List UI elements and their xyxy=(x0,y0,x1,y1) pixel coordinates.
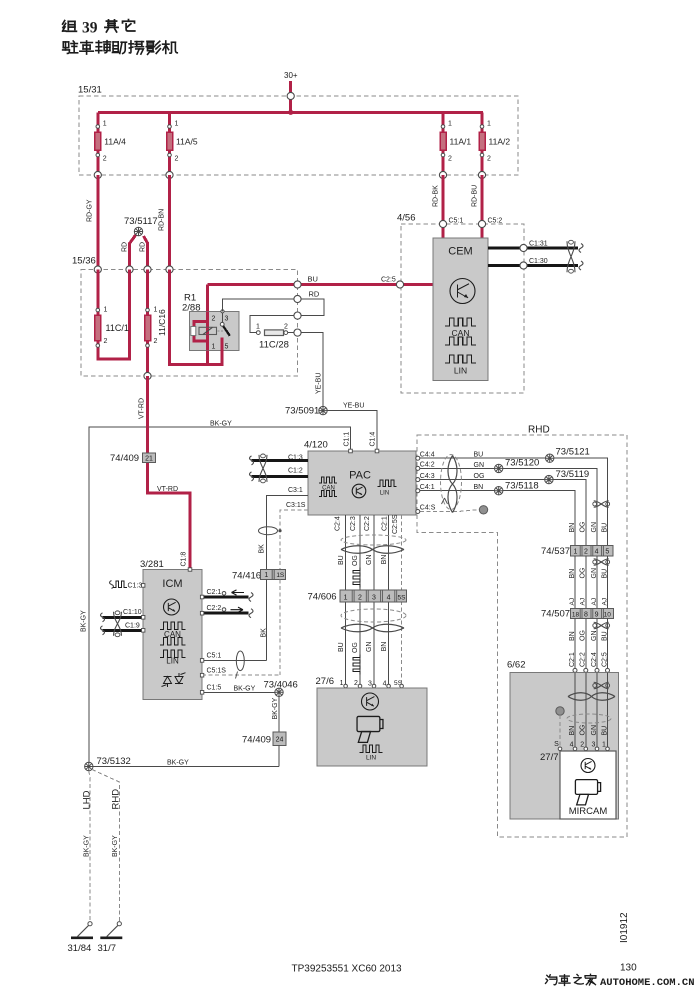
svg-text:27/6: 27/6 xyxy=(316,676,335,687)
svg-text:C1:1: C1:1 xyxy=(344,432,351,447)
svg-text:73/5132: 73/5132 xyxy=(97,756,131,767)
svg-text:C1:9: C1:9 xyxy=(125,623,140,630)
svg-text:74/409: 74/409 xyxy=(242,735,271,746)
svg-text:BN: BN xyxy=(569,631,576,641)
svg-text:C2:4: C2:4 xyxy=(335,516,342,531)
svg-text:C2:2: C2:2 xyxy=(364,516,371,531)
svg-text:27/7: 27/7 xyxy=(540,752,559,763)
svg-text:GN: GN xyxy=(474,462,485,469)
svg-text:AJ: AJ xyxy=(580,598,587,606)
svg-text:LHD: LHD xyxy=(81,790,92,809)
svg-text:BU: BU xyxy=(474,452,484,459)
svg-text:S: S xyxy=(554,741,559,748)
svg-text:RD: RD xyxy=(140,242,147,252)
svg-text:2: 2 xyxy=(358,595,362,602)
svg-text:8: 8 xyxy=(584,611,588,618)
svg-text:18: 18 xyxy=(572,611,580,618)
svg-text:2: 2 xyxy=(104,338,108,345)
svg-text:ICM: ICM xyxy=(162,578,182,590)
svg-text:RD-BK: RD-BK xyxy=(433,185,440,207)
svg-text:4/120: 4/120 xyxy=(304,440,328,451)
svg-text:C4:4: C4:4 xyxy=(420,451,435,458)
svg-text:BK: BK xyxy=(261,628,268,638)
svg-text:VT-RD: VT-RD xyxy=(139,398,146,419)
svg-text:AJ: AJ xyxy=(601,598,608,606)
svg-text:4: 4 xyxy=(570,741,574,748)
svg-text:11/C16: 11/C16 xyxy=(157,309,167,336)
svg-text:C2:1: C2:1 xyxy=(207,589,222,596)
svg-text:3/281: 3/281 xyxy=(140,559,164,570)
svg-text:AUTOHOME.COM.CN: AUTOHOME.COM.CN xyxy=(600,977,695,989)
svg-text:C2:5: C2:5 xyxy=(381,277,396,284)
svg-text:10: 10 xyxy=(604,611,612,618)
svg-text:74/606: 74/606 xyxy=(308,592,337,603)
svg-text:5: 5 xyxy=(225,344,229,351)
svg-text:LIN: LIN xyxy=(166,657,179,666)
svg-text:C4:S: C4:S xyxy=(420,505,436,512)
svg-text:C1:3: C1:3 xyxy=(288,455,303,462)
svg-text:11A/2: 11A/2 xyxy=(489,137,511,147)
svg-text:15/31: 15/31 xyxy=(78,85,102,96)
svg-text:RD: RD xyxy=(122,242,129,252)
svg-text:BK-GY: BK-GY xyxy=(81,610,88,632)
svg-text:GN: GN xyxy=(591,522,598,533)
svg-text:YE-BU: YE-BU xyxy=(316,373,323,394)
svg-text:1: 1 xyxy=(103,121,107,128)
svg-text:BN: BN xyxy=(381,642,388,652)
svg-text:73/5121: 73/5121 xyxy=(556,447,590,458)
svg-text:73/5120: 73/5120 xyxy=(505,458,539,469)
svg-text:VT-RD: VT-RD xyxy=(157,486,178,493)
svg-text:OG: OG xyxy=(352,555,359,566)
svg-text:BK-GY: BK-GY xyxy=(272,697,279,719)
svg-text:5: 5 xyxy=(605,549,609,556)
svg-text:RD-GY: RD-GY xyxy=(87,199,94,222)
svg-text:RD-BN: RD-BN xyxy=(159,209,166,231)
svg-text:2: 2 xyxy=(354,680,358,687)
svg-text:BU: BU xyxy=(601,726,608,736)
svg-text:3: 3 xyxy=(225,316,229,323)
svg-text:BN: BN xyxy=(569,523,576,533)
svg-text:BU: BU xyxy=(338,642,345,652)
svg-text:15/36: 15/36 xyxy=(72,256,96,267)
svg-text:C2:4: C2:4 xyxy=(591,652,598,667)
svg-text:C1:5: C1:5 xyxy=(207,685,222,692)
svg-text:BU: BU xyxy=(601,631,608,641)
svg-text:OG: OG xyxy=(580,725,587,736)
svg-text:C1:4: C1:4 xyxy=(370,432,377,447)
svg-text:11A/5: 11A/5 xyxy=(176,137,198,147)
svg-text:AJ: AJ xyxy=(569,598,576,606)
svg-text:1: 1 xyxy=(256,324,260,331)
svg-text:BU: BU xyxy=(338,555,345,565)
svg-text:4/56: 4/56 xyxy=(397,213,416,224)
svg-text:C4:3: C4:3 xyxy=(420,473,435,480)
svg-text:BK-GY: BK-GY xyxy=(234,686,256,693)
svg-text:C5:1S: C5:1S xyxy=(207,668,227,675)
svg-text:31/84: 31/84 xyxy=(68,943,92,954)
svg-text:2: 2 xyxy=(487,156,491,163)
svg-text:C2:1: C2:1 xyxy=(382,516,389,531)
svg-text:74/416: 74/416 xyxy=(232,571,261,582)
svg-text:39: 39 xyxy=(82,20,98,37)
svg-text:1: 1 xyxy=(448,121,452,128)
svg-text:30+: 30+ xyxy=(284,71,298,80)
svg-text:OG: OG xyxy=(474,473,485,480)
svg-text:C4:1: C4:1 xyxy=(420,484,435,491)
svg-text:5S: 5S xyxy=(398,595,407,602)
svg-text:LIN: LIN xyxy=(380,491,389,497)
svg-text:GN: GN xyxy=(366,555,373,566)
svg-text:GN: GN xyxy=(366,642,373,653)
svg-text:73/5117: 73/5117 xyxy=(124,216,158,227)
svg-text:BU: BU xyxy=(601,569,608,579)
svg-text:C2:3: C2:3 xyxy=(350,516,357,531)
svg-text:C2:1: C2:1 xyxy=(569,652,576,667)
svg-text:C1:8: C1:8 xyxy=(181,552,188,567)
svg-text:9: 9 xyxy=(595,611,599,618)
svg-text:C3:1: C3:1 xyxy=(288,487,303,494)
svg-text:C1:31: C1:31 xyxy=(529,241,548,248)
svg-text:C2:2: C2:2 xyxy=(580,652,587,667)
svg-text:2: 2 xyxy=(175,156,179,163)
svg-text:GN: GN xyxy=(591,568,598,579)
svg-text:73/5118: 73/5118 xyxy=(505,481,539,492)
svg-text:3: 3 xyxy=(372,595,376,602)
svg-text:74/409: 74/409 xyxy=(110,453,139,464)
svg-text:4: 4 xyxy=(387,595,391,602)
svg-text:C2:5: C2:5 xyxy=(601,652,608,667)
svg-text:LIN: LIN xyxy=(366,755,376,762)
svg-text:CEM: CEM xyxy=(448,246,472,258)
svg-text:MIRCAM: MIRCAM xyxy=(569,806,608,817)
svg-text:C1:30: C1:30 xyxy=(529,258,548,265)
svg-text:11A/1: 11A/1 xyxy=(450,137,472,147)
svg-text:YE-BU: YE-BU xyxy=(343,403,364,410)
svg-text:2: 2 xyxy=(584,549,588,556)
svg-text:2: 2 xyxy=(103,156,107,163)
svg-text:24: 24 xyxy=(276,737,284,744)
svg-text:2: 2 xyxy=(154,338,158,345)
svg-text:TP39253551 XC60 2013: TP39253551 XC60 2013 xyxy=(292,964,403,975)
svg-text:OG: OG xyxy=(580,568,587,579)
svg-text:130: 130 xyxy=(620,963,637,974)
svg-text:1: 1 xyxy=(574,549,578,556)
svg-text:11C/1: 11C/1 xyxy=(106,323,129,333)
svg-text:3: 3 xyxy=(368,681,372,688)
svg-text:C3:1S: C3:1S xyxy=(286,502,306,509)
svg-text:RHD: RHD xyxy=(528,425,550,436)
svg-text:BN: BN xyxy=(381,555,388,565)
svg-text:C1:3: C1:3 xyxy=(128,582,143,589)
svg-text:LIN: LIN xyxy=(454,366,467,376)
svg-text:BK-GY: BK-GY xyxy=(167,760,189,767)
svg-text:74/507: 74/507 xyxy=(541,609,570,620)
svg-text:C2:2: C2:2 xyxy=(207,605,222,612)
svg-text:BU: BU xyxy=(601,523,608,533)
svg-text:BK: BK xyxy=(259,544,266,554)
svg-text:C5:1: C5:1 xyxy=(207,653,222,660)
svg-text:1: 1 xyxy=(212,344,216,351)
svg-text:BN: BN xyxy=(569,726,576,736)
svg-text:11A/4: 11A/4 xyxy=(104,137,126,147)
svg-text:BN: BN xyxy=(569,569,576,579)
svg-text:73/5119: 73/5119 xyxy=(556,469,590,480)
svg-text:31/7: 31/7 xyxy=(98,943,117,954)
svg-text:PAC: PAC xyxy=(349,470,371,482)
svg-text:I01912: I01912 xyxy=(619,912,630,943)
svg-text:2: 2 xyxy=(212,316,216,323)
svg-text:1: 1 xyxy=(264,572,268,579)
svg-text:2: 2 xyxy=(284,324,288,331)
svg-text:C1:10: C1:10 xyxy=(123,609,142,616)
svg-text:1: 1 xyxy=(602,741,606,748)
svg-text:6/62: 6/62 xyxy=(507,660,526,671)
svg-text:BK-GY: BK-GY xyxy=(210,421,232,428)
svg-text:1: 1 xyxy=(487,121,491,128)
svg-text:C4:2: C4:2 xyxy=(420,462,435,469)
svg-text:C5:2: C5:2 xyxy=(488,218,503,225)
svg-text:4: 4 xyxy=(383,681,387,688)
svg-text:3: 3 xyxy=(591,741,595,748)
svg-text:C2:5S: C2:5S xyxy=(392,514,399,534)
svg-text:1: 1 xyxy=(104,307,108,314)
svg-text:OG: OG xyxy=(580,630,587,641)
svg-text:1: 1 xyxy=(340,680,344,687)
svg-text:GN: GN xyxy=(591,725,598,736)
svg-text:GN: GN xyxy=(591,631,598,642)
svg-text:73/5091: 73/5091 xyxy=(285,406,319,417)
svg-text:RHD: RHD xyxy=(111,789,122,810)
svg-text:1: 1 xyxy=(175,121,179,128)
svg-text:11C/28: 11C/28 xyxy=(259,340,289,351)
svg-text:2: 2 xyxy=(580,741,584,748)
svg-text:2: 2 xyxy=(448,156,452,163)
svg-text:C5:1: C5:1 xyxy=(449,218,464,225)
svg-text:4: 4 xyxy=(595,549,599,556)
svg-text:1S: 1S xyxy=(276,572,285,579)
svg-text:BK-GY: BK-GY xyxy=(112,835,119,857)
svg-text:BU: BU xyxy=(308,275,318,284)
svg-text:74/537: 74/537 xyxy=(541,546,570,557)
svg-text:RD-BU: RD-BU xyxy=(472,185,479,207)
svg-text:BK-GY: BK-GY xyxy=(84,835,91,857)
svg-text:OG: OG xyxy=(580,522,587,533)
svg-text:1: 1 xyxy=(344,595,348,602)
svg-text:OG: OG xyxy=(352,642,359,653)
svg-text:C1:2: C1:2 xyxy=(288,468,303,475)
svg-text:RD: RD xyxy=(309,290,320,299)
svg-text:AJ: AJ xyxy=(591,598,598,606)
svg-text:BN: BN xyxy=(474,484,484,491)
svg-text:21: 21 xyxy=(145,455,153,462)
